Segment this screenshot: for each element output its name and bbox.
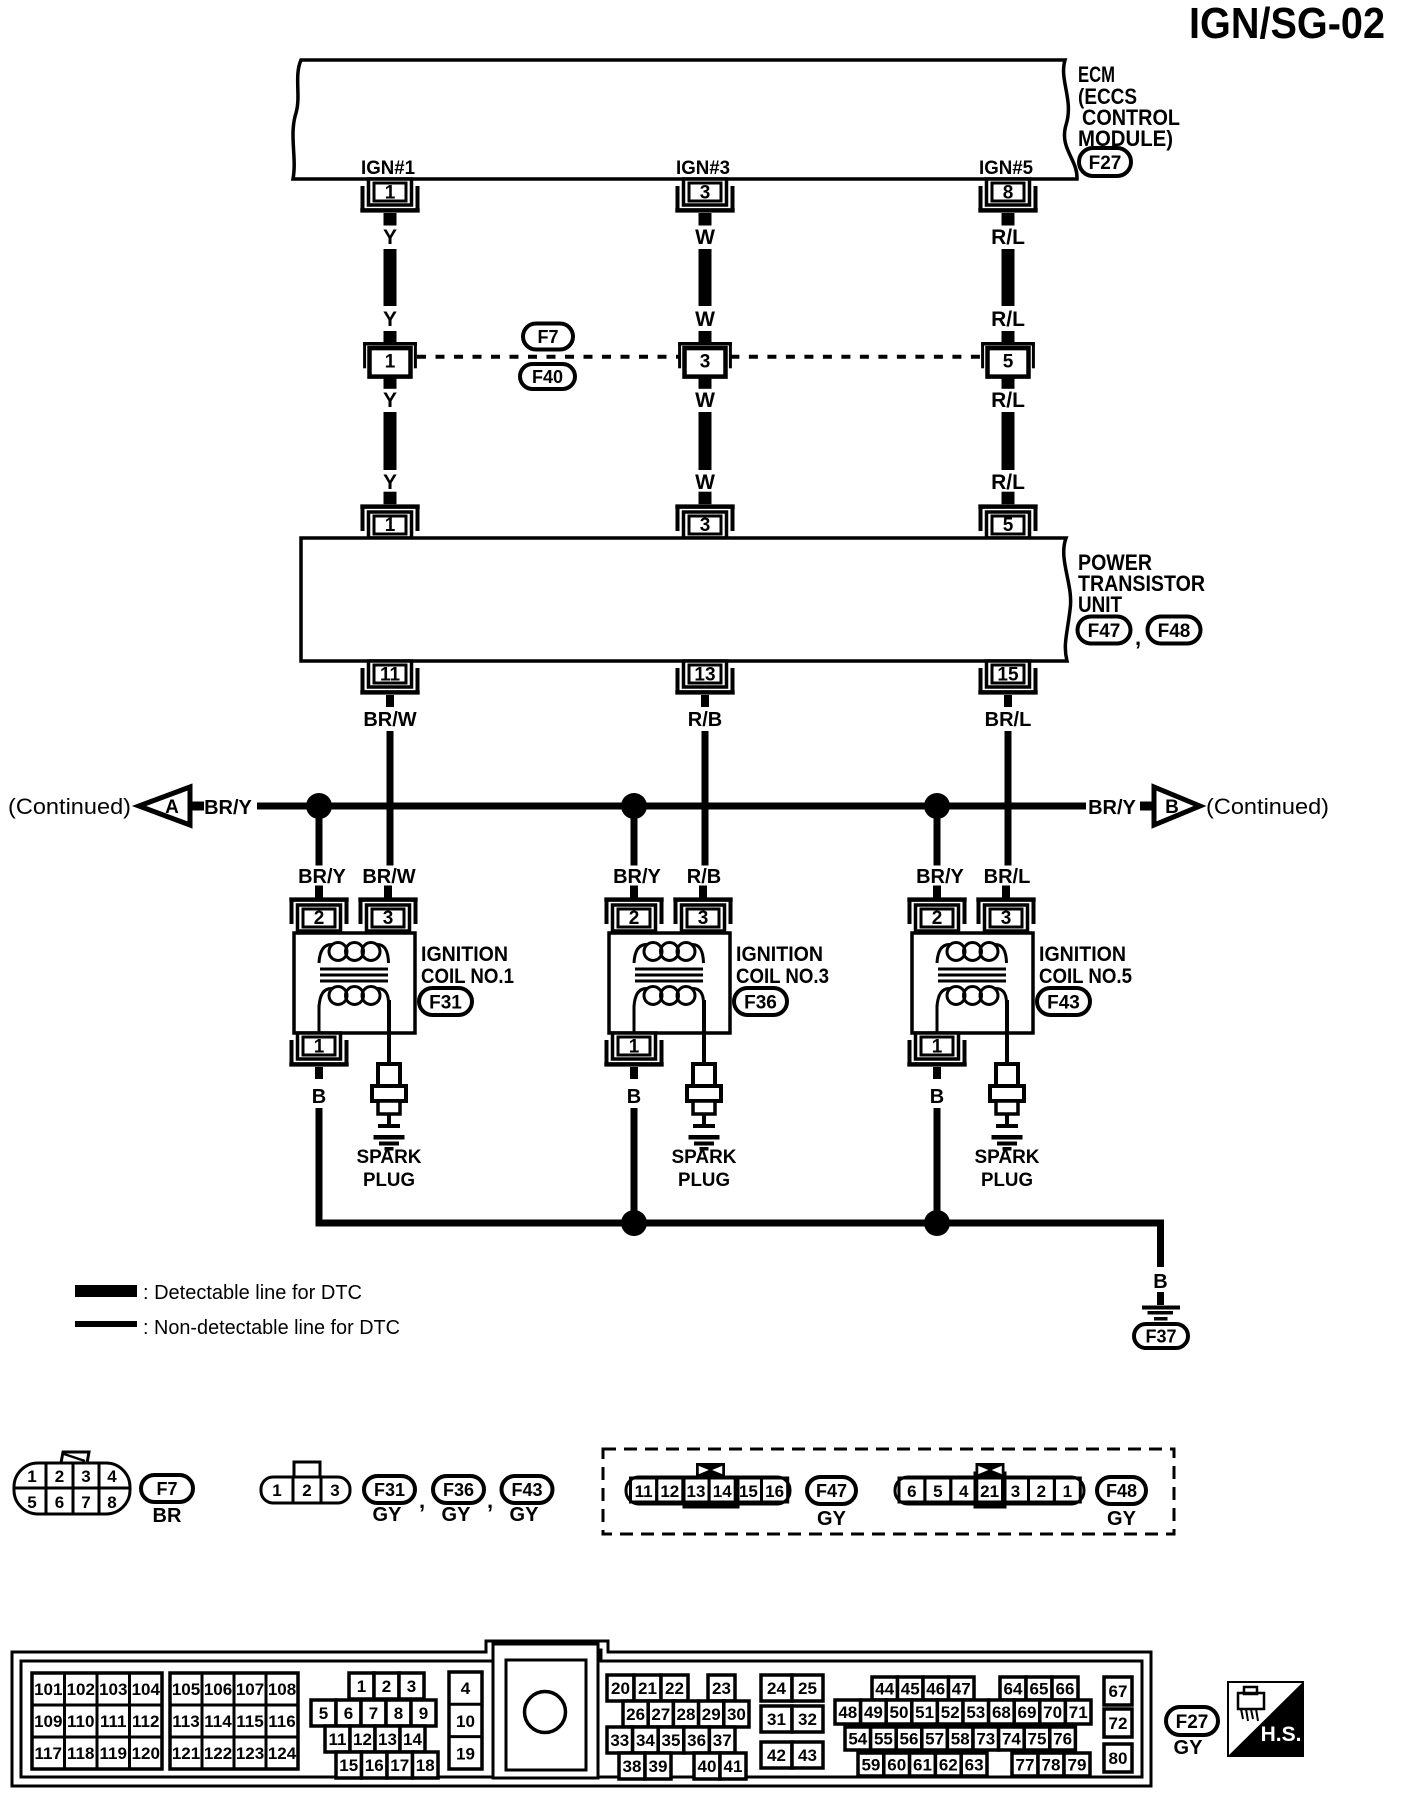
svg-text:1: 1 — [932, 1037, 943, 1058]
svg-text:BR/Y: BR/Y — [613, 866, 661, 888]
ECM pin 8 (IGN#5) — [987, 179, 1030, 205]
svg-text:45: 45 — [901, 1680, 920, 1699]
svg-text:B: B — [1165, 797, 1179, 818]
svg-text:PLUG: PLUG — [981, 1170, 1033, 1191]
svg-text:118: 118 — [67, 1744, 94, 1763]
coil secondary to pin 1 wire — [633, 1005, 636, 1033]
svg-text:5: 5 — [1003, 515, 1014, 536]
svg-text:GY: GY — [373, 1504, 403, 1526]
svg-text:57: 57 — [925, 1730, 944, 1749]
ECM connector pins 38-41 — [619, 1753, 645, 1779]
svg-text:1: 1 — [357, 1677, 366, 1696]
svg-text:20: 20 — [611, 1679, 630, 1698]
wire R/B segment to ignition coil — [702, 731, 709, 866]
svg-text:SPARK: SPARK — [975, 1147, 1040, 1168]
ground bus junction dot — [924, 1210, 950, 1236]
ignition coil secondary winding — [329, 987, 347, 1005]
svg-text:119: 119 — [100, 1744, 127, 1763]
wire BR/W segment to ignition coil — [387, 731, 394, 866]
svg-text:76: 76 — [1053, 1730, 1072, 1749]
svg-text:114: 114 — [204, 1712, 232, 1731]
svg-text:(Continued): (Continued) — [8, 794, 131, 819]
svg-text:4: 4 — [461, 1679, 471, 1698]
svg-text:11: 11 — [380, 665, 401, 686]
svg-text:106: 106 — [204, 1680, 232, 1699]
svg-text:1: 1 — [385, 183, 396, 204]
svg-text:PLUG: PLUG — [363, 1170, 415, 1191]
svg-text:F48: F48 — [1106, 1481, 1137, 1501]
connector F48 bowtie key — [976, 1463, 1005, 1477]
svg-text:59: 59 — [861, 1756, 880, 1775]
svg-text:10: 10 — [456, 1712, 475, 1731]
svg-text:15: 15 — [997, 665, 1019, 686]
connector ref F40 oval — [520, 364, 575, 389]
svg-text:42: 42 — [767, 1746, 786, 1765]
connector F7 face (8-pin) — [14, 1463, 130, 1514]
svg-text:F48: F48 — [1158, 621, 1191, 642]
svg-text:IGN#1: IGN#1 — [361, 158, 415, 179]
spark plug symbol — [378, 1064, 400, 1088]
ignition coil pin 2 — [298, 905, 341, 931]
svg-text:61: 61 — [913, 1756, 932, 1775]
svg-text:23: 23 — [712, 1679, 731, 1698]
bus junction dot above ignition coil NO.5 — [924, 793, 950, 819]
ECM connector keyway block — [493, 1644, 598, 1778]
legend non-detectable line sample — [75, 1321, 137, 1327]
wire stub out of F7 connector — [699, 376, 712, 388]
wire W detectable segment F7 to power transistor unit — [699, 412, 712, 470]
svg-text:B: B — [627, 1086, 641, 1108]
ignition coil secondary winding — [947, 987, 965, 1005]
dashed group box for F47/F48 connector faces — [603, 1449, 1174, 1534]
svg-text:124: 124 — [268, 1744, 297, 1763]
wire stub into F7 connector — [699, 331, 712, 344]
coil secondary to spark plug wire — [702, 1000, 706, 1064]
svg-text:3: 3 — [1001, 908, 1012, 929]
svg-text:19: 19 — [456, 1745, 475, 1764]
svg-text:COIL NO.3: COIL NO.3 — [736, 965, 829, 988]
ECM connector pins 15-18 — [336, 1752, 362, 1778]
svg-text:Y: Y — [383, 308, 397, 331]
svg-text:F47: F47 — [816, 1481, 847, 1501]
svg-text:BR/L: BR/L — [984, 866, 1031, 888]
wire stub from arrow A — [190, 802, 204, 811]
ignition coil pin 3 — [682, 905, 725, 931]
ECM connector pins 33-37 — [607, 1727, 633, 1753]
svg-text:IGNITION: IGNITION — [1039, 943, 1126, 966]
svg-text:GY: GY — [817, 1508, 847, 1530]
svg-text:7: 7 — [81, 1493, 90, 1512]
svg-text:11: 11 — [329, 1730, 347, 1749]
svg-text:38: 38 — [623, 1757, 642, 1776]
connector F48 keyway box — [975, 1473, 1005, 1507]
F7/F40 in-line connector pin 5 — [988, 348, 1029, 377]
svg-text:SPARK: SPARK — [672, 1147, 737, 1168]
svg-text:R/L: R/L — [991, 471, 1025, 494]
svg-text:11: 11 — [635, 1482, 653, 1501]
connector F31/F36/F43 face (3-pin) — [261, 1477, 350, 1503]
svg-text:117: 117 — [35, 1744, 62, 1763]
svg-text:3: 3 — [700, 183, 711, 204]
svg-text:39: 39 — [649, 1757, 668, 1776]
svg-text:40: 40 — [698, 1757, 717, 1776]
H.S. logo connector icon — [1238, 1693, 1264, 1709]
coil secondary to spark plug wire — [1005, 1000, 1009, 1064]
wire stub into F7 connector — [1002, 331, 1015, 344]
svg-text:122: 122 — [204, 1744, 232, 1763]
svg-text:103: 103 — [99, 1680, 127, 1699]
svg-text:13: 13 — [378, 1730, 397, 1749]
coil secondary to spark plug wire — [387, 1000, 391, 1064]
svg-text:24: 24 — [767, 1679, 786, 1698]
svg-text:47: 47 — [952, 1680, 971, 1699]
dashed line linking F7/F40 connector pins (right) — [730, 355, 982, 359]
svg-text:BR/Y: BR/Y — [204, 797, 252, 819]
svg-text:3: 3 — [700, 515, 711, 536]
wire B segment to ground bus — [316, 1108, 323, 1227]
F7/F40 in-line connector pin 1 — [370, 348, 411, 377]
ignition coil pin 1 — [613, 1033, 656, 1059]
connector F47 face (6-pin) — [626, 1477, 790, 1504]
ignition coil primary winding — [644, 943, 662, 961]
ECM connector pins 20-23 — [607, 1675, 634, 1701]
ECM connector pins 48-53 68-71 — [835, 1700, 861, 1724]
svg-text:15: 15 — [739, 1482, 758, 1501]
svg-text:115: 115 — [236, 1712, 263, 1731]
wire stub into F7 connector — [384, 331, 397, 344]
svg-text:70: 70 — [1043, 1703, 1062, 1722]
ignition coil pin 1 — [916, 1033, 959, 1059]
wire BR/Y branch from bus junction — [934, 810, 941, 866]
svg-text:IGNITION: IGNITION — [421, 943, 508, 966]
svg-text:77: 77 — [1016, 1756, 1035, 1775]
svg-text:2: 2 — [629, 908, 640, 929]
ECM connector pins 44-47 and 64-66 — [872, 1677, 898, 1700]
ECM connector pins 5-9 — [311, 1700, 336, 1726]
svg-text:6: 6 — [55, 1493, 64, 1512]
svg-text:GY: GY — [1107, 1508, 1137, 1530]
svg-text:W: W — [695, 308, 715, 331]
svg-text:58: 58 — [951, 1730, 970, 1749]
ECM connector pins 11-14 — [325, 1726, 350, 1752]
svg-text:102: 102 — [67, 1680, 95, 1699]
svg-text:12: 12 — [660, 1482, 679, 1501]
wire B segment to ground bus — [934, 1108, 941, 1227]
ignition coil secondary winding — [644, 987, 662, 1005]
wire stub out of F7 connector — [384, 376, 397, 388]
svg-text:30: 30 — [727, 1705, 746, 1724]
svg-text:110: 110 — [67, 1712, 94, 1731]
svg-text:3: 3 — [1011, 1482, 1020, 1501]
power transistor unit box — [301, 538, 1071, 661]
svg-text:12: 12 — [353, 1730, 372, 1749]
svg-text:28: 28 — [677, 1705, 696, 1724]
svg-text:F47: F47 — [1088, 621, 1121, 642]
ground bus wire horizontal — [316, 1220, 1165, 1227]
svg-text:34: 34 — [636, 1731, 655, 1750]
svg-text:9: 9 — [419, 1704, 428, 1723]
power transistor unit bottom pin 15 — [987, 661, 1030, 687]
svg-text:35: 35 — [662, 1731, 681, 1750]
ignition coil pin 1 — [298, 1033, 341, 1059]
wire stub out of F7 connector — [1002, 376, 1015, 388]
svg-text:W: W — [695, 226, 715, 249]
ECM connector pins 54-58 73-76 — [845, 1727, 871, 1750]
svg-text:F37: F37 — [1145, 1326, 1176, 1346]
ignition coil primary winding — [947, 943, 965, 961]
svg-text:6: 6 — [344, 1704, 353, 1723]
svg-text:29: 29 — [702, 1705, 721, 1724]
bus wire BR/Y horizontal — [257, 803, 1086, 810]
connector ref F47 oval (PTU) — [1078, 617, 1131, 644]
svg-text:104: 104 — [132, 1680, 161, 1699]
ignition coil pin 2 — [916, 905, 959, 931]
ignition coil core lines — [635, 968, 703, 971]
connector ref F37 oval (ground) — [1134, 1324, 1188, 1348]
svg-text:4: 4 — [107, 1467, 117, 1486]
svg-text:56: 56 — [900, 1730, 919, 1749]
svg-text:IGN#3: IGN#3 — [676, 158, 730, 179]
svg-text:17: 17 — [390, 1756, 409, 1775]
ECM connector F27 face outline — [12, 1641, 1151, 1786]
svg-text:F36: F36 — [443, 1480, 474, 1500]
svg-text:52: 52 — [941, 1703, 960, 1722]
svg-text:109: 109 — [34, 1712, 62, 1731]
svg-text:37: 37 — [713, 1731, 732, 1750]
svg-text:1: 1 — [385, 351, 396, 372]
svg-text:54: 54 — [848, 1730, 867, 1749]
svg-text:14: 14 — [403, 1730, 422, 1749]
connector ref F43 oval — [1037, 988, 1090, 1015]
svg-text:F43: F43 — [511, 1480, 542, 1500]
svg-text:(Continued): (Continued) — [1206, 794, 1329, 819]
svg-text:F7: F7 — [156, 1479, 177, 1499]
svg-text:BR/Y: BR/Y — [916, 866, 964, 888]
dashed line linking F7/F40 connector pins — [417, 355, 680, 359]
svg-text:1: 1 — [314, 1037, 325, 1058]
svg-text:18: 18 — [416, 1756, 435, 1775]
svg-text:4: 4 — [959, 1482, 969, 1501]
svg-text:14: 14 — [713, 1482, 732, 1501]
svg-text:31: 31 — [767, 1710, 786, 1729]
H.S. harness side logo — [1228, 1682, 1303, 1756]
svg-text:,: , — [1135, 625, 1141, 650]
svg-text:W: W — [695, 471, 715, 494]
wire BR/Y branch from bus junction — [631, 810, 638, 866]
svg-text:63: 63 — [965, 1756, 984, 1775]
svg-text:75: 75 — [1028, 1730, 1047, 1749]
svg-text:,: , — [487, 1488, 493, 1513]
svg-text:Y: Y — [383, 226, 397, 249]
svg-text:1: 1 — [272, 1481, 281, 1500]
svg-text:66: 66 — [1056, 1680, 1075, 1699]
ECM connector pins 1-3 — [349, 1673, 374, 1699]
svg-text:74: 74 — [1002, 1730, 1021, 1749]
svg-text:F31: F31 — [374, 1480, 405, 1500]
svg-text:R/B: R/B — [687, 866, 721, 888]
svg-text:BR: BR — [153, 1505, 182, 1527]
svg-text:PLUG: PLUG — [678, 1170, 730, 1191]
svg-text:2: 2 — [55, 1467, 64, 1486]
svg-text:F40: F40 — [532, 367, 563, 387]
svg-text:B: B — [312, 1086, 326, 1108]
spark plug symbol — [996, 1064, 1018, 1088]
wire BR/Y branch from bus junction — [316, 810, 323, 866]
svg-text:49: 49 — [864, 1703, 883, 1722]
svg-text:B: B — [930, 1086, 944, 1108]
connector ref F48 oval (PTU) — [1148, 617, 1201, 644]
svg-text:65: 65 — [1030, 1680, 1049, 1699]
svg-text:73: 73 — [976, 1730, 995, 1749]
ignition coil core lines — [938, 968, 1006, 971]
svg-text:2: 2 — [932, 908, 943, 929]
svg-text:1: 1 — [27, 1467, 36, 1486]
svg-text:5: 5 — [319, 1704, 328, 1723]
svg-text:3: 3 — [698, 908, 709, 929]
svg-text:R/B: R/B — [688, 709, 722, 731]
svg-text:Y: Y — [383, 389, 397, 412]
svg-text:1: 1 — [1063, 1482, 1072, 1501]
svg-text:69: 69 — [1018, 1703, 1037, 1722]
svg-text:GY: GY — [1174, 1737, 1204, 1759]
svg-text:62: 62 — [939, 1756, 958, 1775]
ECM pin 1 (IGN#1) — [369, 179, 412, 205]
svg-text:SPARK: SPARK — [357, 1147, 422, 1168]
svg-text:COIL NO.5: COIL NO.5 — [1039, 965, 1132, 988]
connector ref F7 oval — [523, 324, 573, 350]
connector ref F27 oval (face) — [1166, 1707, 1218, 1735]
connector F47 keyway box — [684, 1477, 738, 1507]
svg-text:F31: F31 — [429, 992, 462, 1013]
svg-text:111: 111 — [100, 1712, 127, 1731]
wire R/L detectable segment F7 to power transistor unit — [1002, 412, 1015, 470]
ECM connector keyway circle — [525, 1692, 566, 1733]
svg-text:60: 60 — [887, 1756, 906, 1775]
svg-text:13: 13 — [687, 1482, 706, 1501]
svg-text:IGNITION: IGNITION — [736, 943, 823, 966]
ignition coil NO.5 box — [912, 933, 1033, 1033]
coil secondary to pin 1 wire — [318, 1005, 321, 1033]
ECM (ECCS control module) box — [293, 60, 1077, 179]
svg-text:67: 67 — [1109, 1682, 1128, 1701]
connector ref F36 oval (face) — [433, 1476, 484, 1503]
ignition coil pin 3 — [985, 905, 1028, 931]
svg-text:41: 41 — [724, 1757, 743, 1776]
svg-text:BR/Y: BR/Y — [1088, 797, 1136, 819]
connector ref F31 oval (face) — [364, 1476, 415, 1503]
power transistor unit bottom pin 13 — [684, 661, 727, 687]
svg-text:R/L: R/L — [991, 389, 1025, 412]
ECM connector pins 4/10/19 column — [449, 1672, 482, 1769]
svg-text:123: 123 — [236, 1744, 264, 1763]
connector F48 face (7-pin) — [895, 1477, 1084, 1504]
wire Y detectable segment F7 to power transistor unit — [384, 412, 397, 470]
svg-text:1: 1 — [629, 1037, 640, 1058]
svg-text:,: , — [419, 1488, 425, 1513]
svg-text:GY: GY — [442, 1504, 472, 1526]
svg-text:BR/W: BR/W — [363, 709, 416, 731]
svg-text:3: 3 — [383, 908, 394, 929]
svg-text:6: 6 — [907, 1482, 916, 1501]
power transistor unit top pin 3 — [684, 512, 727, 538]
svg-text:UNIT: UNIT — [1078, 592, 1122, 617]
svg-text:36: 36 — [687, 1731, 706, 1750]
ECM connector pins 24/25/31/32/42/43 — [761, 1675, 792, 1701]
svg-text:107: 107 — [236, 1680, 264, 1699]
ground bus drop wire right — [1157, 1223, 1164, 1267]
ECM connector pin grid 101-120 — [32, 1673, 162, 1769]
continuation arrow B — [1154, 787, 1200, 825]
svg-text:F7: F7 — [537, 327, 558, 347]
ground bus junction dot — [621, 1210, 647, 1236]
bus junction dot above ignition coil NO.1 — [306, 793, 332, 819]
wire B segment to ground bus — [631, 1108, 638, 1227]
legend detectable line sample — [75, 1285, 137, 1297]
svg-text:5: 5 — [27, 1493, 36, 1512]
svg-text:116: 116 — [268, 1712, 295, 1731]
ignition coil primary winding — [329, 943, 347, 961]
svg-text:64: 64 — [1004, 1680, 1023, 1699]
connector ref F47 oval (face) — [807, 1477, 856, 1504]
svg-text:5: 5 — [933, 1482, 942, 1501]
svg-text:101: 101 — [34, 1680, 62, 1699]
connector ref F27 oval (ECM) — [1079, 148, 1131, 176]
svg-text:120: 120 — [132, 1744, 160, 1763]
wire stub to ground — [1157, 1292, 1164, 1305]
ignition coil pin 2 — [613, 905, 656, 931]
svg-text:80: 80 — [1109, 1749, 1128, 1768]
ECM connector pins 59-63 and 77-79 — [858, 1753, 884, 1776]
ECM pin 3 (IGN#3) — [684, 179, 727, 205]
wire R/L detectable segment ECM to F7 connector — [1002, 249, 1015, 306]
svg-text:2: 2 — [1037, 1482, 1046, 1501]
svg-text:26: 26 — [626, 1705, 645, 1724]
svg-text:32: 32 — [798, 1710, 817, 1729]
svg-text:W: W — [695, 389, 715, 412]
connector ref F43 oval (face) — [502, 1476, 553, 1503]
svg-text:51: 51 — [915, 1703, 934, 1722]
svg-text:71: 71 — [1069, 1703, 1088, 1722]
ECM connector pins 26-30 — [623, 1701, 648, 1727]
svg-text:22: 22 — [665, 1679, 684, 1698]
connector ref F31 oval — [419, 988, 472, 1015]
svg-text:7: 7 — [369, 1704, 378, 1723]
svg-text:79: 79 — [1068, 1756, 1087, 1775]
svg-text:2: 2 — [314, 908, 325, 929]
svg-text:55: 55 — [874, 1730, 893, 1749]
svg-text:46: 46 — [926, 1680, 945, 1699]
svg-text:5: 5 — [1003, 351, 1014, 372]
wire W detectable segment ECM to F7 connector — [699, 249, 712, 306]
connector ref F36 oval — [734, 988, 787, 1015]
svg-text:1: 1 — [385, 515, 396, 536]
svg-text:25: 25 — [798, 1679, 817, 1698]
svg-text:8: 8 — [1003, 183, 1014, 204]
svg-text:F36: F36 — [744, 992, 777, 1013]
svg-text:13: 13 — [694, 665, 715, 686]
svg-text:8: 8 — [394, 1704, 403, 1723]
svg-text:F27: F27 — [1176, 1712, 1209, 1733]
svg-text:BR/W: BR/W — [362, 866, 415, 888]
power transistor unit top pin 5 — [987, 512, 1030, 538]
spark plug symbol — [693, 1064, 715, 1088]
svg-text:108: 108 — [268, 1680, 296, 1699]
svg-text:H.S.: H.S. — [1261, 1723, 1302, 1746]
svg-text:IGN/SG-02: IGN/SG-02 — [1189, 0, 1385, 48]
svg-text:B: B — [1153, 1271, 1167, 1293]
svg-text:2: 2 — [382, 1677, 391, 1696]
svg-text:121: 121 — [172, 1744, 200, 1763]
